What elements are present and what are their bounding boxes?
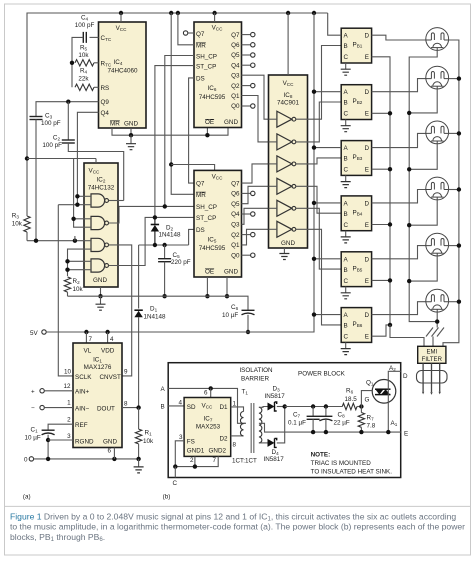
wire IC6 output stub 3 [242, 64, 251, 66]
wire outlet6 gnd stub [436, 312, 438, 327]
terminal 5V [42, 330, 46, 334]
wire outlet3 gnd stub [409, 144, 437, 170]
transformer T1 primary winding [240, 412, 243, 436]
svg-text:10k: 10k [73, 286, 84, 293]
svg-text:TO INSULATED HEAT SINK.: TO INSULATED HEAT SINK. [311, 469, 393, 476]
terminal IC6 output nc 1 [251, 43, 255, 47]
wire gate2 input a [74, 218, 84, 220]
svg-text:DOUT: DOUT [97, 405, 115, 412]
svg-text:Q1: Q1 [366, 380, 374, 387]
junction gnd bus [129, 133, 133, 137]
wire R4 to RS [94, 86, 99, 88]
svg-text:C: C [344, 334, 349, 341]
wire secondary CT to A1 rail [259, 423, 401, 432]
junction IC7 VCC on A wire [209, 386, 213, 390]
wire node to IC5 DS [189, 229, 194, 245]
svg-text:C2: C2 [53, 135, 61, 142]
svg-text:SH_CP: SH_CP [196, 204, 217, 211]
svg-text:1CT:1CT: 1CT:1CT [232, 458, 257, 465]
terminal IC6 output nc 0 [251, 32, 255, 36]
wire IC5 VCC feed [171, 165, 214, 171]
wire PB5 A from 5V rail [314, 258, 341, 260]
svg-text:FS: FS [187, 439, 195, 446]
plug prong tips [422, 392, 441, 395]
wire IC6 DS from IC5 Q7' cascade [189, 78, 194, 183]
wire IC5 GND drop [226, 277, 228, 296]
wire gate1 input b / SCLK line [58, 204, 84, 206]
svg-text:D: D [364, 33, 369, 40]
svg-text:POWER BLOCK: POWER BLOCK [298, 371, 346, 378]
svg-text:Q6: Q6 [231, 42, 240, 49]
svg-text:Q5: Q5 [231, 201, 240, 208]
wire PB5 D to outlet5 [372, 246, 426, 259]
wire D2 to primary bottom [231, 435, 244, 437]
wire C8 top [325, 407, 327, 417]
wire C5 top [164, 245, 166, 259]
svg-text:TRIAC IS MOUNTED: TRIAC IS MOUNTED [311, 460, 372, 467]
wire GND1 drop [194, 456, 196, 466]
svg-text:74HC4060: 74HC4060 [107, 68, 138, 75]
junction gate node [359, 404, 363, 408]
junction neutral rail [457, 131, 461, 135]
svg-text:100 pF: 100 pF [41, 120, 61, 127]
wire VDD riser [107, 332, 109, 343]
resistor R6 [342, 403, 357, 409]
junction rectifier node [283, 404, 287, 408]
svg-text:1N4148: 1N4148 [144, 314, 167, 321]
svg-text:12: 12 [63, 383, 71, 390]
svg-text:MR: MR [110, 121, 120, 128]
svg-text:6: 6 [108, 448, 112, 455]
wire PB5 C ground stub [345, 287, 347, 293]
svg-text:B: B [344, 267, 348, 274]
transformer T1 secondary winding [259, 407, 262, 443]
junction top rail IC6 VCC [212, 11, 216, 15]
wire IC5 Q1 to inverter6 [242, 229, 269, 245]
power block PB3 body [341, 141, 371, 176]
junction ST_CP bus / D2 [153, 215, 157, 219]
svg-text:Q2: Q2 [231, 83, 240, 90]
wire SCLK riser to IC1 [58, 205, 73, 376]
inverter 2 of IC8 [277, 134, 292, 150]
junction C3 on gate3 line [34, 239, 38, 243]
wire gate into triac [361, 391, 373, 407]
svg-text:PB6: PB6 [353, 321, 363, 328]
resistor R2 [64, 277, 70, 292]
wire IC5 nc stub 7 [242, 254, 251, 256]
svg-text:18.5: 18.5 [345, 396, 358, 403]
ground IC1 [138, 459, 140, 467]
NAND gate 1 of IC2 [91, 194, 105, 207]
svg-text:10k: 10k [143, 438, 154, 445]
terminal IC5 output nc 3 [251, 212, 255, 216]
svg-text:Q6: Q6 [231, 191, 240, 198]
svg-text:SCLK: SCLK [75, 374, 92, 381]
wire IC6 output stub 7 [242, 105, 251, 107]
svg-text:T1: T1 [242, 389, 249, 396]
wire IC6 Q3 to inverter1 [242, 75, 269, 119]
wire IC6 OE pin drop [206, 128, 208, 135]
resistor R1 [135, 429, 141, 444]
svg-text:Q4: Q4 [101, 110, 110, 117]
svg-text:74HC132: 74HC132 [88, 185, 115, 192]
svg-text:10 µF: 10 µF [25, 435, 41, 442]
terminal IC6 output nc 7 [251, 104, 255, 108]
svg-text:Q4: Q4 [231, 211, 240, 218]
wire R2 to ground bus [67, 292, 69, 296]
svg-text:C5: C5 [173, 252, 181, 259]
wire C pin [174, 467, 176, 478]
svg-text:(b): (b) [163, 494, 171, 501]
junction Q9/C2 node [66, 100, 70, 104]
wire D4 out to +V node [277, 407, 285, 443]
wire to R7 [360, 407, 362, 413]
wire +V rail [285, 406, 343, 408]
junction SH_CP bus [163, 204, 167, 208]
outlet 1 [426, 28, 449, 51]
wire R1 bottom [138, 444, 140, 459]
svg-text:D3: D3 [273, 386, 281, 393]
svg-text:Q1: Q1 [231, 93, 240, 100]
junction top rail drop1 [169, 11, 173, 15]
junction C5 gnd [162, 294, 166, 298]
wire gate3 input a from R3 [27, 240, 84, 242]
wire PB6 C ground stub [345, 342, 347, 348]
power block PB2 body [341, 85, 371, 120]
svg-text:2: 2 [67, 417, 71, 424]
wire inverter1 to PB1 B [296, 46, 341, 120]
wire C2 top [67, 102, 69, 140]
svg-text:D2: D2 [166, 225, 174, 232]
wire IC6 output stub 1 [242, 44, 251, 46]
wire node down to D1 [138, 245, 140, 309]
svg-text:MR: MR [196, 43, 206, 50]
svg-text:PB2: PB2 [353, 98, 363, 105]
svg-text:GND: GND [124, 121, 138, 128]
inverter 5 of IC8 [277, 200, 292, 216]
wire inverter4 to PB4 B [296, 186, 341, 213]
svg-text:VDD: VDD [101, 348, 115, 355]
junction top rail IC8 VCC [286, 11, 290, 15]
svg-text:B: B [344, 100, 348, 107]
svg-text:10: 10 [64, 369, 72, 376]
wire C8 bottom [325, 419, 327, 432]
svg-text:VCC: VCC [202, 402, 214, 409]
svg-text:GND: GND [281, 240, 295, 247]
stub [74, 236, 76, 241]
wire IC5 Q3 to inverter5 [242, 208, 269, 224]
svg-text:ST_CP: ST_CP [196, 215, 216, 222]
svg-text:Q2: Q2 [231, 232, 240, 239]
svg-text:GND1: GND1 [187, 448, 205, 455]
terminal IC5 output nc 1 [251, 191, 255, 195]
plug body [417, 371, 448, 384]
svg-text:G: G [365, 397, 370, 404]
NAND gate 2 of IC2 [91, 216, 105, 229]
svg-text:IC4: IC4 [114, 59, 123, 66]
junction gate2 a [71, 217, 75, 221]
wire PB4 D to outlet4 [372, 190, 426, 203]
wire gate3 input b down [68, 249, 85, 276]
wire gate2 output to SH_CP bus [109, 206, 194, 223]
junction RGND/C1 [46, 438, 50, 442]
svg-text:6: 6 [204, 390, 208, 397]
wire triac A2/A1 vertical to D pin [388, 371, 400, 432]
wire VCC drop to IC5 MR [171, 13, 194, 194]
wire IC6 output stub 5 [242, 85, 251, 87]
svg-text:SD: SD [187, 404, 196, 411]
svg-text:IC2: IC2 [97, 177, 106, 184]
wire IC6 Q1 to inverter2 [242, 96, 269, 142]
wire DOUT [122, 407, 139, 409]
svg-text:22 µF: 22 µF [334, 420, 350, 427]
svg-text:−: − [31, 405, 35, 412]
wire IC6 ST_CP down to bus [155, 66, 194, 218]
svg-text:DS: DS [196, 227, 205, 234]
diode D1 1N4148 [134, 309, 142, 311]
svg-text:2: 2 [190, 457, 194, 464]
wire FS down [175, 441, 184, 467]
terminal IC6 Q7' nc [183, 31, 187, 35]
svg-text:100 pF: 100 pF [75, 22, 95, 29]
svg-text:A1: A1 [391, 420, 398, 427]
svg-text:PB3: PB3 [353, 154, 363, 161]
wire C1 bottom [47, 435, 49, 459]
junction DOUT/R1/D1 [136, 405, 140, 409]
junction VCC drop / IC5 VCC feed [169, 162, 173, 166]
svg-text:1: 1 [67, 400, 71, 407]
svg-text:R5: R5 [80, 45, 88, 52]
wire PB6 D to outlet6 [372, 302, 426, 315]
wire IC6 SH_CP down to bus [165, 56, 194, 207]
junction neutral rail [457, 300, 461, 304]
power block PB6 body [341, 308, 371, 343]
wire IC2 GND pin [100, 287, 102, 296]
svg-text:IC8: IC8 [284, 92, 293, 99]
svg-text:IC7: IC7 [204, 416, 213, 423]
junction D2 on node [153, 243, 157, 247]
wire charge node line [139, 244, 189, 246]
wire IC5 Q5 to inverter4 [242, 186, 269, 203]
wire Q4 down to NAND inputs [77, 112, 98, 205]
svg-text:10 µF: 10 µF [222, 312, 238, 319]
resistor R5 [75, 60, 94, 66]
svg-text:1N4148: 1N4148 [159, 232, 182, 239]
junction gate1 b [75, 203, 79, 207]
wire gate3 output to CNVST [109, 245, 132, 376]
svg-text:MR: MR [196, 192, 206, 199]
wire PB4 E stub [372, 224, 390, 226]
wire PB3 A from 5V rail [314, 147, 341, 149]
wire 0 line [34, 458, 139, 460]
IC5 74HC595 body [194, 170, 242, 277]
svg-text:C: C [344, 54, 349, 61]
capacitor C7 0.1uF [307, 415, 320, 417]
wire AIN+ [44, 390, 73, 392]
junction neutral rail [457, 76, 461, 80]
svg-text:10k: 10k [78, 52, 89, 59]
ground IC2 [100, 296, 102, 304]
wire 5V bus to IC2 VCC [27, 158, 96, 160]
svg-text:DS: DS [196, 76, 205, 83]
svg-text:Q0: Q0 [231, 103, 240, 110]
wire inverter6 to PB6 B [296, 229, 341, 325]
svg-text:74HC595: 74HC595 [199, 245, 226, 252]
svg-text:D: D [364, 145, 369, 152]
wire C4 to left vert [72, 37, 83, 87]
wire PB2 D to outlet2 [372, 79, 426, 92]
inverter 3 of IC8 [277, 156, 292, 172]
svg-text:SH_CP: SH_CP [196, 53, 217, 60]
svg-text:Q0: Q0 [231, 252, 240, 259]
wire PB2 A from 5V rail [314, 91, 341, 93]
wire to R1 [138, 408, 140, 430]
wire R5 to RTC [94, 62, 99, 64]
svg-text:C: C [344, 111, 349, 118]
svg-text:C3: C3 [45, 113, 53, 120]
IC4 74HC4060 body [99, 22, 147, 128]
wire IC5 nc stub 5 [242, 234, 251, 236]
svg-text:VCC: VCC [116, 25, 128, 32]
wire IC6 Q7' stub [188, 32, 194, 34]
svg-text:GND: GND [103, 439, 117, 446]
svg-text:Q4: Q4 [231, 62, 240, 69]
outlet 2 [426, 66, 449, 89]
IC7 MAX253 body [184, 398, 231, 457]
wire R7 bottom [360, 427, 362, 432]
svg-text:REF: REF [75, 422, 88, 429]
svg-text:22k: 22k [78, 76, 89, 83]
ground PB5 [345, 292, 347, 294]
terminal IC6 output nc 2 [251, 53, 255, 57]
wire C7 top [312, 407, 314, 417]
svg-text:C7: C7 [293, 412, 301, 419]
svg-text:C: C [344, 278, 349, 285]
svg-text:IN5817: IN5817 [264, 456, 285, 463]
capacitor C8 22uF [319, 415, 332, 417]
wire C5 bottom to gnd bus [164, 262, 166, 297]
capacitor C6 10uF [242, 309, 255, 311]
wire inverter5 to PB5 B [296, 208, 341, 269]
svg-text:9: 9 [124, 369, 128, 376]
wire IC4 GND pin [130, 128, 132, 135]
wire RGND [48, 439, 73, 441]
wire D3 out [277, 406, 285, 408]
wire outlet5 gnd stub [409, 256, 437, 281]
svg-text:8: 8 [124, 401, 128, 408]
svg-text:ISOLATION: ISOLATION [239, 367, 273, 374]
svg-text:NOTE:: NOTE: [311, 452, 331, 459]
svg-text:Q7: Q7 [196, 180, 205, 187]
svg-text:4: 4 [110, 336, 114, 343]
svg-text:0: 0 [24, 457, 28, 464]
svg-text:7: 7 [213, 457, 217, 464]
svg-text:Q5: Q5 [231, 52, 240, 59]
svg-text:PB5: PB5 [353, 265, 363, 272]
wire PB3 E stub [372, 168, 390, 170]
svg-text:B: B [344, 156, 348, 163]
resistor R4 [75, 84, 94, 90]
svg-text:+: + [31, 389, 35, 396]
svg-text:C6: C6 [231, 304, 239, 311]
wire CTC to C4 [90, 36, 99, 38]
wire neutral rail to EMI [443, 40, 459, 346]
capacitor C2 [62, 139, 75, 141]
capacitor C5 [158, 258, 171, 260]
wire PB2 C ground stub [345, 120, 347, 126]
svg-text:AIN+: AIN+ [75, 389, 89, 396]
svg-text:VCC: VCC [212, 173, 224, 180]
wire 5V line and right 5V rail [46, 13, 314, 332]
IC2 74HC132 body [84, 163, 118, 287]
svg-text:E: E [365, 111, 369, 118]
wire IC5 OE drop [206, 277, 208, 296]
svg-text:blocks, PB1 through PB6.: blocks, PB1 through PB6. [10, 532, 105, 543]
wire C3 bottom to gate3 line [35, 120, 37, 241]
svg-text:(a): (a) [23, 494, 31, 501]
svg-text:AIN−: AIN− [75, 405, 89, 412]
svg-text:D1: D1 [150, 306, 158, 313]
resistor R7 [358, 413, 364, 428]
capacitor C1 10uF [42, 429, 55, 431]
svg-text:FILTER: FILTER [422, 357, 443, 363]
wire R6 to gate node [357, 406, 361, 408]
svg-text:GND: GND [224, 119, 238, 126]
wire Q9 to C3 [36, 102, 99, 117]
chassis ground symbol [426, 328, 444, 337]
wire IC8 GND stub [283, 248, 285, 254]
junction top rail IC4 VCC [119, 11, 123, 15]
wire secondary top to D3 [259, 406, 268, 409]
capacitor C3 [30, 116, 43, 118]
terminal IC6 output nc 3 [251, 63, 255, 67]
IC1 MAX1276 body [73, 343, 122, 448]
wire PB4 C ground stub [345, 231, 347, 237]
wire D1 to DOUT node [138, 317, 140, 407]
diode D4 IN5817 [268, 439, 275, 447]
wire IC5 nc stub 1 [242, 192, 251, 194]
svg-text:B: B [344, 43, 348, 50]
wire outlet ground rail [409, 50, 437, 321]
power block PB4 body [341, 196, 371, 231]
svg-text:PB4: PB4 [353, 209, 363, 216]
power block detail box (b) [168, 363, 401, 478]
wire PB4 A from 5V rail [314, 202, 341, 204]
outlet 5 [426, 233, 449, 256]
wire main ground bus to C6 [68, 296, 249, 310]
svg-text:4: 4 [178, 399, 182, 406]
IC6 74HC595 body [194, 22, 242, 128]
svg-text:Q3: Q3 [231, 222, 240, 229]
svg-text:E: E [365, 222, 369, 229]
svg-text:VL: VL [84, 348, 92, 355]
svg-text:GND: GND [224, 269, 238, 276]
svg-text:A2: A2 [389, 365, 396, 372]
ground PB6 [345, 348, 347, 350]
svg-text:C8: C8 [338, 412, 346, 419]
svg-text:E: E [365, 278, 369, 285]
svg-text:OE: OE [205, 119, 214, 126]
svg-text:R4: R4 [80, 68, 88, 75]
wire PB1 C ground stub [345, 63, 347, 69]
svg-text:E: E [365, 54, 369, 61]
junction E rail PB6 [388, 323, 392, 327]
EMI filter body [418, 346, 446, 363]
junction R5/R4 node [70, 61, 74, 65]
plug prongs [423, 363, 440, 392]
wire D1 to primary top [231, 407, 244, 412]
outlet 6 [426, 289, 449, 312]
